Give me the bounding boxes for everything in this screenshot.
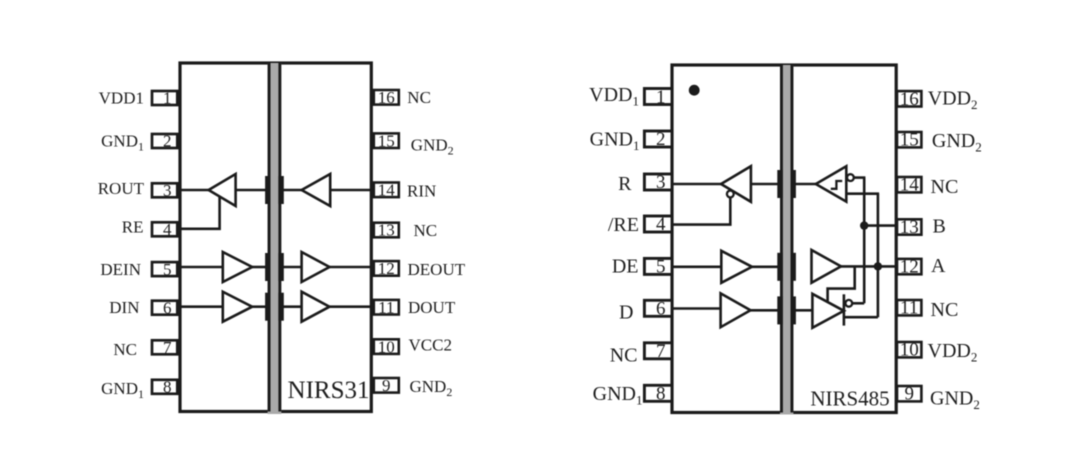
wire U2 net B to pin13: [864, 224, 896, 227]
wire U1 DEIN buffer to barrier: [252, 266, 266, 269]
svg-text:1: 1: [163, 89, 172, 108]
barrier coupling tick U1 row DIN left: [265, 293, 270, 321]
inverting driver output bar U2: [843, 294, 846, 325]
isolation barrier U2 (gray bar): [780, 65, 793, 415]
wire U2 net B vertical: [863, 178, 866, 304]
buffer U1 DEOUT (points right): [302, 252, 330, 282]
svg-text:DE: DE: [612, 256, 639, 278]
svg-text:9: 9: [382, 376, 391, 395]
junction dot net A: [874, 262, 882, 270]
svg-text:GND1: GND1: [101, 379, 144, 401]
barrier coupling tick U2 row D right: [791, 296, 796, 324]
svg-text:3: 3: [163, 181, 172, 200]
svg-text:16: 16: [900, 89, 919, 110]
svg-text:4: 4: [656, 214, 666, 235]
wire U2 DE buffer to barrier: [752, 265, 778, 268]
pin 12 box U2: [897, 259, 921, 274]
pin 9 box U2: [897, 386, 921, 401]
svg-text:15: 15: [900, 130, 919, 151]
svg-text:14: 14: [900, 175, 920, 196]
wire U2 pin4 /RE enable L-shape to bubble: [669, 197, 730, 224]
wire U1 pin5 DEIN to buffer: [177, 266, 223, 269]
svg-text:14: 14: [378, 181, 396, 200]
svg-text:NC: NC: [414, 221, 438, 240]
wire U2 schmitt bubble to B vertical: [854, 176, 866, 179]
isolation barrier U1 left edge line: [268, 63, 271, 412]
pin 7 box U2: [644, 343, 672, 359]
pin 8 box U2: [644, 385, 672, 401]
pin 5 box U2: [644, 258, 672, 274]
buffer U1 DOUT (points right): [302, 292, 330, 322]
svg-text:6: 6: [163, 298, 172, 317]
svg-text:GND1: GND1: [101, 131, 144, 153]
pin 15 box U2: [897, 132, 921, 147]
svg-text:VDD1: VDD1: [99, 88, 144, 107]
pin 1 box U2: [644, 89, 672, 105]
isolation barrier U1 right edge line: [278, 63, 281, 412]
wire U2 enable step branch to inverting driver: [828, 266, 855, 301]
barrier coupling tick U1 row DEIN left: [265, 253, 270, 281]
svg-text:A: A: [931, 255, 946, 277]
inverting driver U2 (points right): [812, 294, 844, 328]
barrier coupling tick U2 row D left: [777, 296, 782, 324]
wire U2 D buffer to barrier: [751, 309, 779, 312]
wire U1 DOUT buffer to pin11: [330, 305, 373, 308]
wire U2 barrier to inverting driver input: [795, 309, 813, 312]
wire U1 barrier to DEOUT buffer: [283, 266, 302, 269]
isolation barrier U2 right edge line: [791, 65, 794, 413]
wire U2 schmitt lower input to net A vertical: [846, 192, 879, 195]
svg-text:GND1: GND1: [590, 129, 640, 154]
pin 4 box U2: [644, 216, 672, 232]
svg-text:7: 7: [163, 338, 172, 357]
barrier coupling tick U2 row DE right: [791, 253, 796, 281]
svg-text:8: 8: [656, 384, 666, 405]
driver A U2 (points right): [812, 250, 842, 283]
svg-text:B: B: [933, 216, 946, 238]
pin 5 box U1: [152, 262, 177, 276]
schmitt receiver U2 (points left): [816, 166, 847, 201]
svg-text:DEIN: DEIN: [100, 260, 141, 279]
barrier coupling tick U1 row DEIN right: [278, 253, 283, 281]
wire U2 net A vertical: [877, 194, 880, 318]
pin 1 dot marker U2: [689, 85, 700, 96]
svg-text:12: 12: [378, 259, 395, 278]
svg-text:GND2: GND2: [410, 377, 453, 399]
svg-text:11: 11: [378, 298, 394, 317]
svg-text:RIN: RIN: [407, 182, 436, 201]
wire U2 barrier to schmitt receiver output: [795, 183, 817, 186]
buffer U1 DEIN (points right): [223, 252, 252, 282]
svg-text:VCC2: VCC2: [409, 335, 452, 354]
pin 16 box U2: [897, 91, 921, 106]
svg-text:12: 12: [900, 257, 919, 278]
svg-text:RE: RE: [122, 218, 144, 237]
svg-text:DOUT: DOUT: [408, 298, 456, 317]
buffer U2 DE (points right): [721, 251, 752, 283]
IC U2 NIRS485 package body: [672, 65, 896, 413]
pin 3 box U1: [152, 183, 177, 197]
buffer U2 D (points right): [721, 293, 751, 327]
svg-text:4: 4: [163, 220, 172, 239]
IC U1 NIRS31 package body: [180, 63, 371, 412]
svg-text:R: R: [618, 173, 632, 195]
svg-text:VDD2: VDD2: [928, 340, 978, 365]
barrier coupling tick U1 row ROUT right: [278, 176, 283, 204]
svg-text:DIN: DIN: [109, 298, 139, 317]
svg-text:5: 5: [163, 260, 172, 279]
svg-text:GND2: GND2: [930, 388, 980, 413]
pin 11 box U1: [374, 300, 399, 315]
wire U1 barrier to RIN receiver tip: [283, 189, 303, 192]
svg-text:NIRS31: NIRS31: [288, 377, 370, 404]
isolation barrier U1 (gray bar): [268, 63, 282, 414]
svg-text:9: 9: [904, 384, 914, 405]
pin 14 box U1: [374, 183, 399, 198]
svg-text:16: 16: [378, 88, 395, 107]
svg-text:NC: NC: [931, 176, 959, 198]
pin 8 box U1: [152, 380, 177, 394]
pin 3 box U2: [644, 174, 672, 190]
svg-text:GND2: GND2: [932, 130, 982, 155]
junction dot net B: [860, 221, 868, 229]
pin 2 box U1: [152, 134, 177, 148]
svg-text:1: 1: [656, 87, 666, 108]
receiver buffer U2 R (points left, enable bubble): [721, 166, 751, 202]
svg-text:10: 10: [900, 340, 919, 361]
schmitt input bubble U2: [847, 174, 854, 181]
pin 4 box U1: [152, 222, 177, 236]
wire U2 receiver back to barrier: [751, 183, 778, 186]
wire U2 driver bar to net A: [844, 316, 878, 319]
pin 6 box U2: [644, 300, 672, 316]
wire U1 RIN receiver back to pin14: [330, 189, 372, 192]
pin 10 box U2: [897, 342, 921, 357]
pin 9 box U1: [374, 378, 399, 393]
svg-text:NC: NC: [610, 345, 638, 367]
pin 14 box U2: [897, 177, 921, 192]
inverting driver bubble U2: [845, 300, 852, 307]
wire U1 barrier to DOUT buffer: [283, 305, 302, 308]
pin 10 box U1: [374, 339, 399, 354]
barrier coupling tick U2 row DE left: [777, 253, 782, 281]
wire U1 receiver input to barrier: [236, 189, 266, 192]
svg-text:10: 10: [378, 337, 395, 356]
svg-text:2: 2: [656, 129, 666, 150]
receiver buffer U1 ROUT (points left): [209, 174, 236, 206]
pin 12 box U1: [374, 261, 399, 276]
wire U1 pin4 RE enable L-shape: [177, 196, 220, 229]
svg-text:2: 2: [163, 132, 172, 151]
svg-text:13: 13: [378, 221, 395, 240]
svg-text:D: D: [619, 302, 633, 324]
barrier coupling tick U2 row R left: [777, 170, 782, 198]
hysteresis glyph inside schmitt receiver: [831, 181, 842, 189]
svg-text:3: 3: [656, 172, 666, 193]
wire U2 net B to driver bubble: [852, 302, 864, 305]
svg-text:NC: NC: [113, 340, 137, 359]
svg-text:NIRS485: NIRS485: [810, 386, 889, 410]
svg-text:NC: NC: [407, 88, 431, 107]
receiver buffer U1 RIN (points left): [302, 174, 331, 206]
wire U2 pin5 DE to buffer: [669, 265, 721, 268]
pin 15 box U1: [374, 133, 399, 148]
wire U2 pin6 D to buffer: [669, 307, 721, 310]
svg-text:ROUT: ROUT: [98, 179, 145, 198]
wire U2 pin3 R to receiver tip: [669, 183, 722, 186]
barrier coupling tick U1 row DIN right: [278, 293, 283, 321]
wire U1 DEOUT buffer to pin12: [330, 266, 373, 269]
svg-text:6: 6: [656, 299, 666, 320]
barrier coupling tick U2 row R right: [791, 170, 796, 198]
pin 2 box U2: [644, 131, 672, 147]
svg-text:DEOUT: DEOUT: [408, 260, 466, 279]
svg-text:VDD1: VDD1: [589, 84, 639, 109]
isolation barrier U2 left edge line: [780, 65, 783, 413]
svg-text:NC: NC: [931, 299, 959, 321]
pin 16 box U1: [374, 90, 399, 105]
svg-text:8: 8: [163, 378, 172, 397]
svg-text:VDD2: VDD2: [928, 88, 978, 113]
pin 13 box U2: [897, 219, 921, 234]
pin 1 box U1: [152, 91, 177, 105]
svg-text:11: 11: [900, 298, 918, 319]
wire U2 driver A output to pin12: [841, 265, 896, 268]
svg-text:13: 13: [900, 217, 919, 238]
buffer U1 DIN (points right): [223, 292, 252, 322]
wire U1 pin3 ROUT to receiver output: [177, 189, 210, 192]
enable bubble U2 /RE: [727, 191, 734, 198]
wire U1 pin6 DIN to buffer: [177, 305, 223, 308]
svg-text:7: 7: [656, 341, 666, 362]
svg-text:GND2: GND2: [411, 135, 454, 157]
pin 6 box U1: [152, 301, 177, 315]
svg-text:GND1: GND1: [593, 383, 643, 408]
pin 13 box U1: [374, 223, 399, 238]
barrier coupling tick U1 row ROUT left: [265, 176, 270, 204]
pin 7 box U1: [152, 340, 177, 354]
pin 11 box U2: [897, 300, 921, 315]
svg-text:15: 15: [378, 131, 395, 150]
svg-text:/RE: /RE: [608, 214, 639, 236]
svg-text:5: 5: [656, 257, 666, 278]
wire U1 DIN buffer to barrier: [252, 305, 266, 308]
